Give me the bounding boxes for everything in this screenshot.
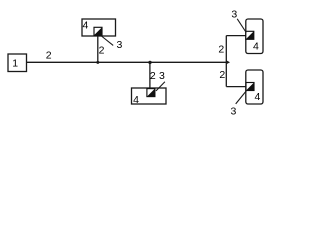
device box 4 (top-middle) xyxy=(82,19,116,36)
wire (top-right horizontal) xyxy=(226,35,247,37)
connector 3 symbol (bottom-right) xyxy=(246,83,254,91)
wire (bottom-middle branch) xyxy=(149,62,151,89)
svg-text:4: 4 xyxy=(82,19,88,31)
junction dot (top-middle branch) xyxy=(96,61,99,64)
leader line to 3 (top-middle) xyxy=(101,36,113,45)
svg-text:2: 2 xyxy=(99,45,105,57)
connector 3 symbol (bottom-middle) xyxy=(147,89,155,97)
svg-text:3: 3 xyxy=(116,39,122,51)
leader line to 3 (bottom-right) xyxy=(236,90,247,104)
svg-text:4: 4 xyxy=(253,41,259,53)
leader line to 3 (top-right) xyxy=(237,19,246,33)
box 1 (node 1) xyxy=(8,54,27,72)
wire (bottom-right horizontal) xyxy=(226,86,247,88)
svg-text:3: 3 xyxy=(159,70,165,82)
leader line to 3 (bottom-middle) xyxy=(156,82,165,91)
svg-text:1: 1 xyxy=(12,58,18,70)
connector 3 symbol (top-right) xyxy=(246,31,254,39)
junction dot (bottom-middle branch) xyxy=(148,61,151,64)
svg-text:3: 3 xyxy=(231,8,237,20)
device box 4 (bottom-middle) xyxy=(132,88,167,104)
svg-text:2: 2 xyxy=(46,50,52,62)
wire (right branch vertical) xyxy=(225,36,227,87)
wire 2 (main bus) xyxy=(27,61,227,63)
device box 4 (top-right) xyxy=(246,19,263,54)
svg-text:2: 2 xyxy=(150,70,156,82)
svg-text:2: 2 xyxy=(218,44,224,56)
connector 3 symbol (top-middle) xyxy=(94,27,102,35)
wire (top-middle branch) xyxy=(97,35,99,62)
device box 4 (bottom-right) xyxy=(246,70,263,104)
svg-text:2: 2 xyxy=(219,69,225,81)
svg-text:3: 3 xyxy=(230,106,236,118)
svg-text:4: 4 xyxy=(254,91,260,103)
junction (right branch) xyxy=(226,60,230,64)
svg-text:4: 4 xyxy=(133,94,139,106)
